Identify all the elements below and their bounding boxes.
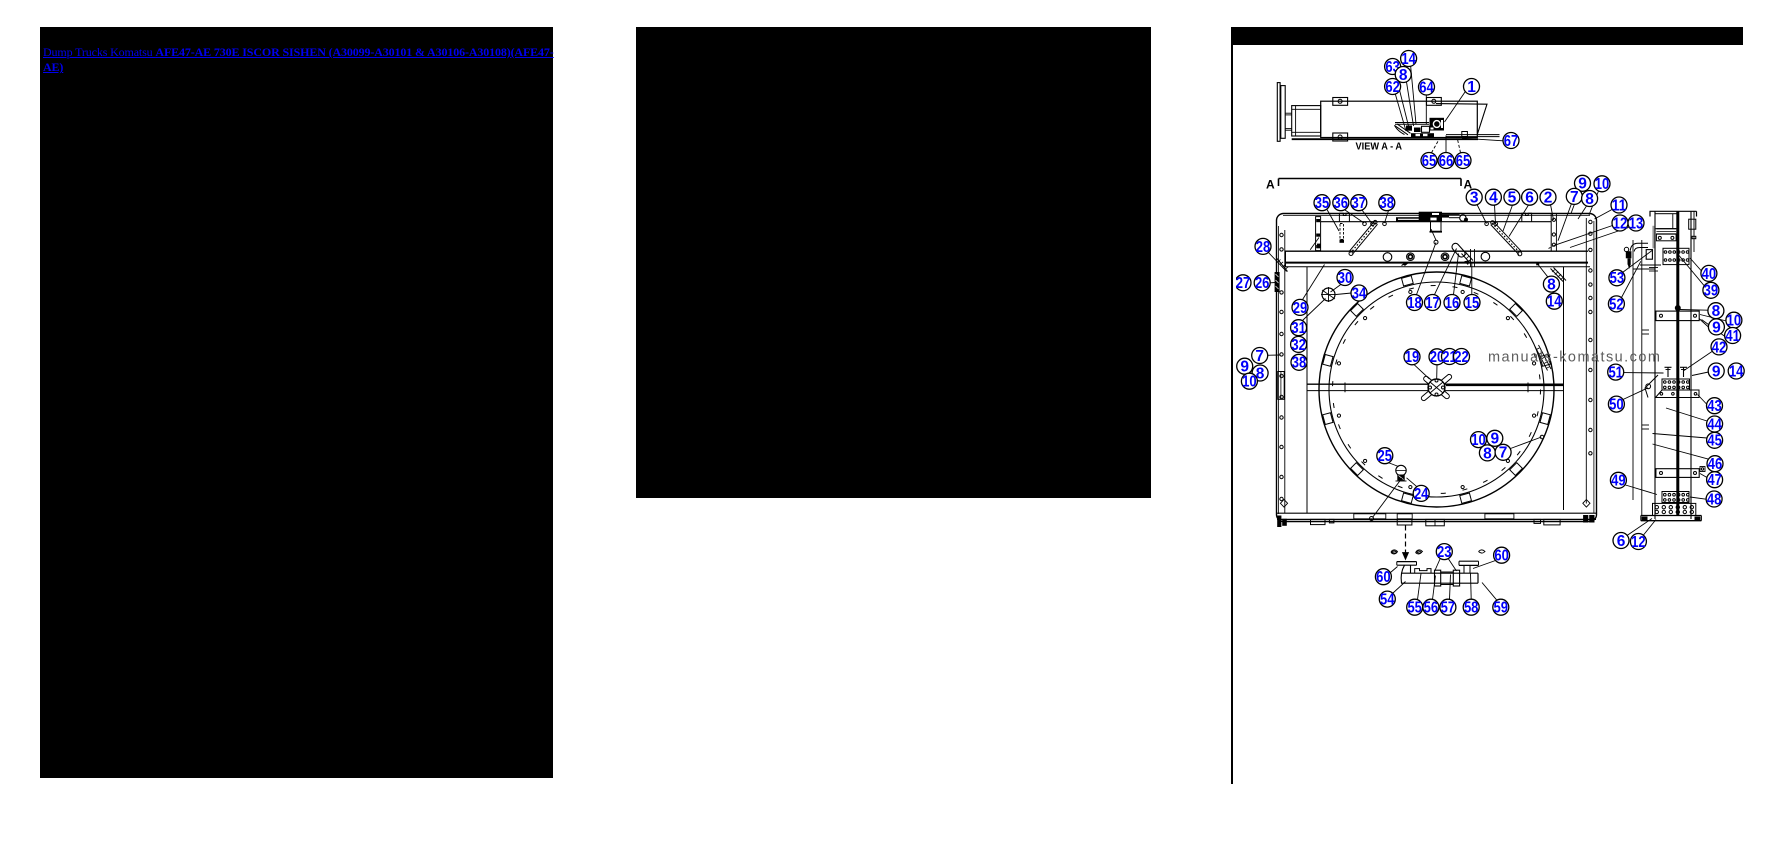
parts diagram [1236,44,1785,644]
svg-text:64: 64 [1419,79,1434,96]
svg-text:26: 26 [1255,275,1270,292]
front view: left overflow tube (dotted) [1349,220,1378,255]
callout 43 [1707,398,1723,415]
callout 38 [1379,195,1395,212]
front view: tank band holes [1383,252,1490,261]
callout 65 [1455,153,1471,170]
svg-text:8: 8 [1712,303,1721,320]
svg-text:28: 28 [1256,239,1271,256]
svg-text:46: 46 [1708,456,1723,473]
callout 58 [1463,599,1479,616]
svg-text:34: 34 [1352,285,1367,302]
front view: fan shroud ring [1319,272,1554,507]
callout 17 [1425,295,1441,312]
svg-text:50: 50 [1609,397,1624,414]
front view: left ear bracket [1339,213,1349,222]
front view: left lifting gusset (hatched) [1277,259,1288,272]
bottom pipe: main tube [1401,573,1478,583]
callout 36 [1333,195,1349,212]
svg-text:38: 38 [1292,355,1307,372]
svg-text:5: 5 [1508,190,1517,207]
callout 12 [1630,534,1646,551]
front view: shroud ring clips [1323,276,1551,504]
side view: bracket under elbow [1633,265,1661,271]
front view: right ear bracket [1522,213,1532,222]
callout 54 [1379,591,1395,608]
callout 27 [1235,275,1251,292]
side view: main verticals [1633,211,1694,519]
svg-text:53: 53 [1610,270,1625,287]
front view: fan support bar [1307,383,1564,393]
section line A-A [1266,178,1473,192]
svg-text:57: 57 [1441,600,1456,617]
svg-text:15: 15 [1465,295,1480,312]
callout 15 [1464,295,1480,312]
svg-text:10: 10 [1242,374,1257,391]
svg-text:8: 8 [1483,445,1492,462]
side view: middle perforated plate [1662,379,1690,390]
front view: left bracket strip on tank [1316,217,1321,251]
svg-text:VIEW A - A: VIEW A - A [1356,142,1403,153]
radiator front view: outer frame [1277,214,1597,522]
side view: top tank box [1652,214,1677,249]
bolt dot for leader 8 (right tank) [1536,262,1539,265]
leader lines [1267,65,1727,600]
callout 53 [1609,270,1625,287]
svg-text:2: 2 [1544,190,1553,207]
svg-text:8: 8 [1399,67,1408,84]
callout 2 [1540,189,1556,206]
svg-text:12: 12 [1631,534,1646,551]
front view: overflow spout capsule (parts 16/17) [1451,242,1475,267]
front view: weld mark [1402,263,1409,266]
callout 25 [1377,448,1393,465]
svg-text:6: 6 [1525,190,1534,207]
callout 57 [1440,599,1456,616]
callout 34 [1351,285,1367,302]
callout 35 [1314,195,1330,212]
side view: middle flange plate [1645,375,1699,398]
svg-text:13: 13 [1629,215,1644,232]
bottom pipe: right valve and flange [1459,550,1485,573]
front view: tank top edge [1321,221,1552,223]
svg-text:41: 41 [1725,328,1740,345]
svg-text:44: 44 [1707,416,1722,433]
callout 49 [1610,472,1626,489]
front view: bottom band [1277,513,1596,519]
left content block (collapsed/black) [40,27,553,778]
front view: top tank band [1285,251,1590,267]
bolt dot for leader 7 (ring) [1540,435,1544,439]
callout 12 [1612,215,1628,232]
svg-text:4: 4 [1489,190,1498,207]
svg-text:55: 55 [1407,600,1422,617]
svg-text:48: 48 [1707,491,1722,508]
callout 20 [1429,349,1445,366]
svg-text:47: 47 [1707,472,1722,489]
callout 10 [1594,176,1610,193]
callout 6 [1522,189,1538,206]
callout 8 [1708,303,1724,320]
front view: left channel stiffener [1278,372,1284,400]
side view: top right bracket [1689,219,1696,239]
svg-text:14: 14 [1729,363,1744,380]
callout 26 [1254,275,1270,292]
svg-text:12: 12 [1613,215,1628,232]
callout 14 [1401,51,1417,68]
callout 60 [1494,547,1510,564]
svg-text:30: 30 [1338,270,1353,287]
callout 31 [1291,320,1307,337]
front view: top edge bolts [1363,222,1498,226]
side view: T-studs (parts 51/42) [1665,367,1688,377]
callout 11 [1611,197,1627,214]
callout 8 [1395,67,1411,84]
svg-text:18: 18 [1407,295,1422,312]
callout 5 [1504,189,1520,206]
svg-text:8: 8 [1585,191,1594,208]
svg-text:49: 49 [1611,473,1626,490]
part circle 30/34 target [1321,287,1336,302]
svg-text:17: 17 [1425,295,1440,312]
svg-text:54: 54 [1380,592,1395,609]
callout 3 [1466,189,1482,206]
front view: drain plug (parts 24/25) [1370,465,1407,520]
callout 39 [1703,282,1719,299]
bottom pipe: stepped union section [1415,569,1460,586]
svg-text:39: 39 [1704,283,1719,300]
svg-text:43: 43 [1707,398,1722,415]
svg-text:7: 7 [1499,445,1508,462]
svg-text:27: 27 [1236,275,1250,292]
svg-text:66: 66 [1439,153,1454,170]
svg-text:52: 52 [1609,296,1624,313]
svg-text:11: 11 [1612,197,1627,214]
callout 52 [1608,296,1624,313]
svg-text:62: 62 [1385,79,1400,96]
svg-text:29: 29 [1293,300,1308,317]
front view: right lifting gusset (hatched) [1551,268,1567,282]
svg-text:24: 24 [1414,486,1429,503]
side view: top edge [1650,211,1697,216]
svg-text:32: 32 [1291,337,1306,354]
front view: right channel verticals [1564,218,1594,514]
svg-text:9: 9 [1712,319,1721,336]
callout 14 [1728,363,1744,380]
callout 28 [1255,238,1271,255]
callout 55 [1407,599,1423,616]
callout 22 [1454,349,1470,366]
callout 4 [1485,189,1501,206]
svg-text:14: 14 [1547,294,1562,311]
svg-text:60: 60 [1494,548,1509,565]
svg-text:23: 23 [1437,544,1452,561]
callout 29 [1292,299,1308,316]
svg-text:19: 19 [1405,349,1420,366]
callout 51 [1608,364,1624,381]
front view: stud bolt (part 36) [1340,224,1345,243]
view A-A: left flange plates [1277,83,1285,142]
callout 56 [1423,599,1439,616]
callout 9 [1575,175,1591,192]
callout 59 [1493,599,1509,616]
view A-A: mounting clips [1333,98,1442,142]
view A-A: connector bars [1285,113,1291,130]
front view: left edge sleeve (part 26) [1275,272,1280,292]
callout 7 [1495,444,1511,461]
callout 50 [1608,396,1624,413]
front view: filler cap assembly [1396,212,1468,222]
callout 30 [1337,270,1353,287]
side view: upper perforated plate [1663,248,1689,264]
callout 7 [1252,348,1268,365]
front view: ladder bracket inside ring [1535,345,1551,371]
side view: bottom flange [1641,516,1702,521]
svg-text:31: 31 [1291,320,1306,337]
callout 40 [1701,265,1717,282]
callout 9 [1708,363,1724,380]
svg-text:67: 67 [1504,133,1519,150]
view A-A: funnel / deflector [1436,104,1500,137]
svg-text:38: 38 [1380,195,1395,212]
front view: right corner box [1551,214,1556,251]
side view: drain cock elbow (parts 52/53) [1624,243,1652,267]
callout 64 [1419,79,1435,96]
callout 9 [1708,319,1724,336]
column divider rule [1231,27,1233,784]
callout 16 [1444,295,1460,312]
callout 7 [1566,188,1582,205]
callout 19 [1404,349,1420,366]
view A-A: cap bracket cluster (parts 62-66) [1395,118,1445,137]
side view: bottom perforated plate [1662,492,1689,503]
svg-text:65: 65 [1422,153,1437,170]
svg-text:59: 59 [1494,600,1509,617]
svg-text:6: 6 [1617,533,1626,550]
svg-text:51: 51 [1608,365,1623,382]
svg-text:A: A [1266,178,1275,192]
callout 48 [1706,491,1722,508]
svg-text:3: 3 [1470,190,1479,207]
svg-text:7: 7 [1570,189,1579,206]
callout 6 [1613,533,1629,550]
front view: neck bolt [1431,229,1438,244]
svg-text:40: 40 [1702,266,1717,283]
front view: gusset near strip [1310,238,1320,250]
svg-text:65: 65 [1456,153,1471,170]
svg-text:manuals-komatsu.com: manuals-komatsu.com [1488,350,1661,366]
callout 24 [1413,485,1429,502]
svg-text:25: 25 [1378,448,1393,465]
callout 10 [1726,312,1742,329]
view A-A: inlet cylinder [1292,106,1321,136]
callout 66 [1438,153,1454,170]
front view: right channel bolts [1589,220,1592,455]
callout 9 [1237,358,1253,375]
callout 23 [1436,544,1452,561]
svg-text:9: 9 [1712,363,1721,380]
flow arrow below radiator [1391,526,1422,560]
svg-text:35: 35 [1315,195,1330,212]
callout 42 [1711,339,1727,356]
callout 14 [1546,293,1562,310]
front view: feet [1277,515,1594,527]
callout 47 [1707,472,1723,489]
svg-text:45: 45 [1707,433,1722,450]
front view: fan hub and blades [1420,373,1452,401]
side view: bottom bolt box [1653,503,1696,515]
view A-A: main body [1292,101,1478,139]
front view: left channel verticals [1278,226,1307,514]
front view: corner diamond bolts [1280,500,1590,508]
bottom pipe: left elbow and flange [1391,550,1423,583]
middle content block (collapsed/black) [636,27,1151,498]
callout 65 [1421,153,1437,170]
svg-text:42: 42 [1712,339,1727,356]
callout 63 [1385,59,1401,76]
svg-text:56: 56 [1424,600,1439,617]
svg-text:8: 8 [1547,277,1556,294]
callout 1 [1464,79,1480,96]
callout 13 [1628,215,1644,232]
callout 9 [1487,430,1503,447]
callout 46 [1707,456,1723,473]
callout 32 [1291,336,1307,353]
right top bar (collapsed/black) [1231,27,1743,45]
callout 8 [1252,365,1268,382]
svg-text:14: 14 [1401,51,1416,68]
callout 67 [1503,133,1519,150]
front view: left channel bolts [1280,233,1283,500]
front view: filler neck [1430,222,1443,233]
callout 44 [1707,416,1723,433]
callout 10 [1241,373,1257,390]
svg-text:16: 16 [1445,295,1460,312]
side view: lower cross brace [1656,467,1705,478]
svg-text:36: 36 [1334,195,1349,212]
callout 62 [1385,79,1401,96]
svg-text:1: 1 [1467,79,1476,96]
callout 38 [1291,354,1307,371]
callout 41 [1725,328,1741,345]
callout 8 [1479,445,1495,462]
callout 10 [1471,432,1487,449]
callout 37 [1351,195,1367,212]
svg-text:22: 22 [1454,349,1469,366]
front view: right overflow tube (dotted) [1491,221,1522,256]
callout 45 [1707,432,1723,449]
svg-text:37: 37 [1352,195,1367,212]
callout 8 [1543,276,1559,293]
callout 8 [1582,191,1598,208]
svg-text:7: 7 [1255,348,1264,365]
callout 60 [1375,569,1391,586]
side view: left panel steps [1642,330,1649,429]
svg-text:10: 10 [1595,176,1610,193]
callout 21 [1442,349,1458,366]
callout 18 [1407,295,1423,312]
side view: upper cross brace [1656,305,1699,321]
svg-text:60: 60 [1376,569,1391,586]
svg-text:58: 58 [1464,600,1479,617]
